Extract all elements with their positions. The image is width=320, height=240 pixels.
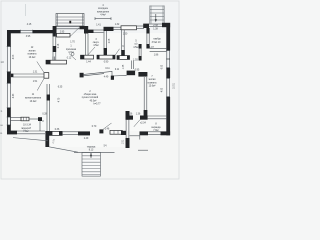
svg-text:общая зона: общая зона [84,94,97,96]
svg-text:1.46: 1.46 [105,128,110,130]
svg-text:7.8м²: 7.8м² [23,130,29,133]
balcony door band x56-84 [57,25,85,27]
svg-text:1.51: 1.51 [33,81,38,83]
wall x86-93.5 y29.5 [87,30,94,33]
svg-text:5Ч: 5Ч [104,146,107,148]
svg-text:40.3м²: 40.3м² [90,99,97,102]
svg-text:терраса: терраса [87,146,96,148]
wall x103.5-107 vertical [103,31,105,50]
fold artifact line top-left [25,4,27,16]
window x136.5-144 [137,25,145,27]
lintel bar x121-136.5 [121,26,137,30]
closet wall y117-121 [11,117,21,119]
svg-text:1.35: 1.35 [123,64,125,69]
svg-text:1.38: 1.38 [153,28,158,30]
window x93.5-103.5 [94,29,104,31]
left wall of room 8 column x125.5-129.5 [125,120,127,138]
svg-text:1.32: 1.32 [115,24,120,26]
svg-text:0.95: 0.95 [135,69,140,71]
svg-text:2.95: 2.95 [60,32,65,34]
door band under ladder [149,23,162,25]
svg-text:4.15: 4.15 [27,24,32,26]
wall x138.5-141.5 vertical [139,44,142,49]
svg-text:1.41: 1.41 [96,24,101,26]
svg-text:1.86: 1.86 [154,54,159,56]
left outer wall [7,30,11,47]
svg-text:0.90: 0.90 [104,62,109,64]
svg-text:1.44: 1.44 [86,62,91,64]
hall left wall vertical x52.5-56 [52,34,54,47]
room 3 small room label [93,39,100,47]
svg-text:гардероб: гардероб [21,128,31,130]
corner wall x84-88 [84,26,88,34]
door swing diagonals (double door) [37,62,44,73]
right outer wall [166,27,170,51]
svg-text:10.51: 10.51 [174,82,176,88]
svg-text:6.93: 6.93 [162,64,164,69]
svg-text:4.43: 4.43 [13,93,15,98]
big room 2 label [82,91,101,106]
svg-text:веранда: веранда [152,127,162,129]
svg-text:1.70: 1.70 [70,42,75,44]
corridor top bars y55-59 [81,55,94,59]
top wall black x33-56 [33,30,57,33]
svg-text:2.49: 2.49 [84,138,89,140]
hall bottom wall bar x46-66.5 [46,60,67,64]
door diagonal at big room exit [103,123,112,129]
wall x121-125 vertical [121,30,123,51]
svg-text:тамбур: тамбур [153,39,161,41]
svg-text:1.31: 1.31 [33,72,38,74]
svg-text:4.49: 4.49 [104,77,109,79]
window x113.5-121 [114,26,122,28]
svg-text:0.11: 0.11 [105,68,110,70]
top wall black x144-149 [143,24,149,28]
corridor bottom thin line [84,71,112,74]
svg-text:4.03: 4.03 [13,54,15,59]
svg-text:0.11: 0.11 [115,69,120,71]
window bar x110-122 [110,130,122,134]
room 1 hall label [66,42,77,60]
top wall window x20-33 [20,29,33,31]
door post square [44,73,49,79]
connector wall under balcony left [53,26,57,37]
tambour bottom wall y48-52 [150,48,167,50]
step link line [130,135,141,137]
svg-text:1.36: 1.36 [136,113,141,115]
svg-text:помещение: помещение [97,11,110,13]
svg-text:0.28: 0.28 [42,114,47,116]
paper background [0,0,180,180]
top wall black x103.5-113.5 [104,27,114,31]
svg-text:ш.: ш. [1,125,4,127]
terrace line to stair [49,147,78,152]
svg-text:4.5м²: 4.5м² [133,46,139,49]
room 11 label [25,94,42,103]
svg-text:13.6м²: 13.6м² [149,85,156,88]
svg-text:4.5м²: 4.5м² [93,44,99,47]
small room left wall x85-88.5 [85,33,87,55]
svg-text:жилая: жилая [149,79,156,81]
svg-text:комната: комната [148,82,157,84]
svg-text:4.79: 4.79 [59,97,61,102]
svg-text:h=5.77: h=5.77 [93,104,101,106]
room 4 label block [95,5,111,20]
terrace left wall x45-49 [45,131,49,147]
room 7 left wall x144-147 [138,72,147,77]
svg-text:холодное: холодное [98,8,109,10]
svg-text:1.51: 1.51 [122,139,124,144]
svg-text:0.12: 0.12 [67,58,72,60]
svg-text:10-3.34: 10-3.34 [23,124,32,126]
door swing room 8 [134,120,140,127]
svg-text:0.70: 0.70 [92,126,97,128]
bottom wall room 8 [140,131,149,135]
svg-text:к2.34: к2.34 [140,122,146,124]
svg-text:комната: комната [28,54,37,56]
svg-text:13.2м²: 13.2м² [29,56,36,59]
bottom-left corner wall [7,131,17,135]
svg-text:0.36: 0.36 [55,129,60,131]
exterior stair ladder top-right [150,6,164,31]
svg-text:сануз.: сануз. [93,42,100,44]
top-right corner wall [162,23,170,27]
svg-text:3.5м² 10: 3.5м² 10 [152,41,161,44]
wall x46-49.5 vertical long (rooms 11/2 divider) [46,84,48,132]
interior wall rooms 12/11 y73.5-77.5 [11,74,14,78]
svg-text:кухни-столовой: кухни-столовой [82,96,99,99]
room 5 label [133,40,139,48]
svg-text:2.16: 2.16 [58,43,60,48]
svg-text:6.35: 6.35 [58,86,63,88]
svg-text:2.08: 2.08 [109,38,111,43]
entrance stair bottom [74,146,148,177]
svg-text:1.30: 1.30 [123,34,128,36]
room 8 label [152,124,162,132]
svg-text:прихожая: прихожая [66,49,77,51]
door diagonal near x112-121 [115,49,120,56]
svg-text:13.2м²: 13.2м² [30,100,37,103]
svg-text:жилая комната: жилая комната [25,97,42,99]
svg-text:4.93: 4.93 [162,87,164,92]
corridor door post small [80,73,84,78]
balcony deck top-center [56,14,84,27]
ground line left [13,138,48,141]
svg-text:4.4м²: 4.4м² [100,14,106,17]
room 7 label [148,64,164,92]
room 12 label [28,47,37,59]
door post [99,129,103,133]
svg-text:1.55: 1.55 [133,59,138,61]
svg-text:жилая: жилая [29,50,36,52]
middle wall y115.5-119.5 room7/8 [126,116,134,120]
big room bottom wall [49,131,62,135]
wall x131-134 vertical with cap [131,61,133,70]
svg-text:8.13: 8.13 [89,150,94,152]
svg-text:3.95: 3.95 [26,36,31,38]
top black of room8 left column [126,111,130,120]
top wall left black x7-20 [7,30,20,33]
tambour wall x146.5-149.5 [146,28,149,34]
